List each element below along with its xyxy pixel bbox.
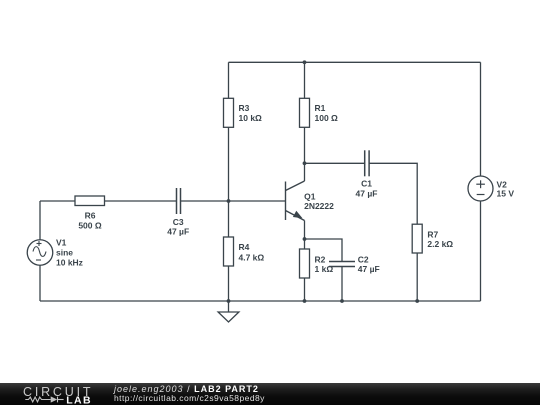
node R2 bottom junction [303,299,307,303]
wire emitter node to C2 [305,239,343,262]
resistor R3 [224,98,234,127]
wire R4 bottom [228,266,230,301]
wire V1 bottom [39,265,41,301]
svg-text:C3: C3 [173,217,184,227]
wire collector vertical [304,163,306,181]
wire R6 to C3 [105,200,177,202]
svg-text:V1: V1 [56,238,67,248]
wire R7 bottom [416,253,418,301]
wire emitter vertical [304,221,306,240]
node R7 bottom junction [415,299,419,303]
svg-text:47 µF: 47 µF [167,227,189,237]
wire base [181,200,286,202]
svg-text:2.2 kΩ: 2.2 kΩ [427,239,453,249]
wire R3 top [228,62,230,98]
ground [218,301,239,322]
wire V1 to R6 [40,200,75,202]
wire R2 top [304,239,306,249]
svg-text:Q1: Q1 [304,192,316,202]
voltage source V1 [27,240,53,266]
node base junction [227,199,231,203]
svg-text:10 kΩ: 10 kΩ [239,113,263,123]
wire V2 bottom [480,201,482,301]
svg-text:R3: R3 [239,103,250,113]
capacitor C2 [329,262,355,267]
capacitor C3 [177,188,181,214]
svg-text:R2: R2 [315,254,326,264]
wire top rail [229,61,481,63]
resistor R7 [412,224,422,253]
svg-text:R7: R7 [427,229,438,239]
resistor R2 [300,249,310,278]
resistor R1 [300,98,310,127]
node collector junction [303,161,307,165]
svg-text:4.7 kΩ: 4.7 kΩ [239,252,265,262]
wire R1 bottom to collector node [304,127,306,163]
svg-text:C1: C1 [361,179,372,189]
svg-text:LAB: LAB [66,394,92,405]
svg-text:100 Ω: 100 Ω [315,113,339,123]
wire R2 bottom [304,278,306,301]
resistor R6 [75,196,105,206]
wire C2 bottom [341,267,343,302]
svg-text:1 kΩ: 1 kΩ [315,264,334,274]
node top rail / R1 junction [303,60,307,64]
svg-text:10 kHz: 10 kHz [56,258,83,268]
node emitter junction [303,237,307,241]
svg-text:R1: R1 [315,103,326,113]
node C2 bottom junction [340,299,344,303]
svg-text:sine: sine [56,248,73,258]
voltage source V2 [468,176,493,201]
capacitor C1 [365,150,369,176]
svg-text:R4: R4 [239,242,250,252]
wire V1 top [39,201,41,240]
svg-text:500 Ω: 500 Ω [78,220,102,230]
svg-text:2N2222: 2N2222 [304,201,334,211]
wire R1 top [304,62,306,98]
wire base node down to R4 [228,201,230,237]
node ground junction [227,299,231,303]
wire C1 to R7 top [369,163,417,224]
svg-text:47 µF: 47 µF [358,264,380,274]
svg-text:15 V: 15 V [497,189,515,199]
svg-text:47 µF: 47 µF [356,188,378,198]
resistor R4 [224,237,234,266]
svg-text:R6: R6 [85,211,96,221]
svg-text:C2: C2 [358,254,369,264]
wire R3 bottom to base node [228,127,230,201]
wire collector node to C1 [305,162,365,164]
transistor Q1 [286,181,305,221]
wire bottom rail [40,300,481,302]
wire V2 top [480,62,482,176]
